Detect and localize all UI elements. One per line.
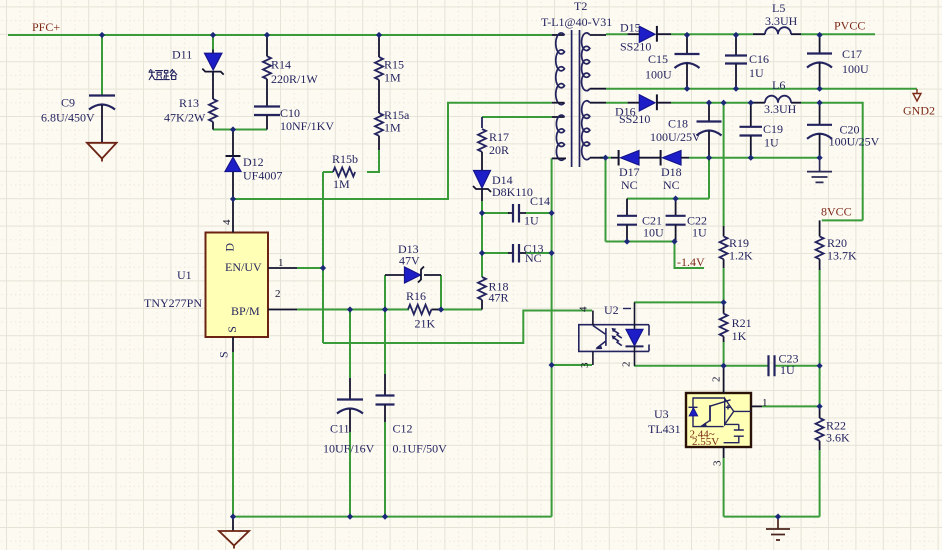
capacitor C22: [666, 199, 686, 242]
earth ground bottom right: [766, 517, 790, 540]
wire C14 row: [482, 201, 552, 253]
diode D18: [661, 150, 689, 166]
junction node (778,516): [775, 514, 781, 520]
wire R17 top link: [482, 116, 552, 118]
resistor R21: [720, 302, 728, 342]
wire GND2 mid rail: [606, 88, 917, 90]
diode D13: [385, 267, 441, 284]
svg-text:S: S: [225, 326, 239, 333]
resistor R13: [209, 75, 217, 130]
resistor R14: [263, 35, 271, 107]
resistor R16: [408, 305, 441, 315]
U2 pin 3 lead: [592, 351, 594, 365]
capacitor C11: [337, 378, 363, 432]
wire C12 top: [384, 310, 386, 375]
U3 output and compensation cap: [724, 411, 751, 442]
wire R17 feed stub: [481, 117, 483, 128]
svg-text:1M: 1M: [384, 121, 401, 135]
svg-text:EN/UV: EN/UV: [225, 260, 262, 274]
svg-text:D17: D17: [619, 165, 640, 179]
svg-text:C12: C12: [393, 422, 413, 436]
svg-text:1: 1: [278, 257, 284, 269]
junction node (482,213): [479, 210, 485, 216]
wire D15 anode: [606, 33, 628, 35]
junction node (605.5,157): [602, 155, 608, 161]
resistor R20: [816, 220, 824, 270]
junction node (350,516): [347, 514, 353, 520]
svg-text:13.7K: 13.7K: [827, 249, 857, 263]
svg-text:SS210: SS210: [619, 112, 650, 126]
svg-text:1U: 1U: [692, 226, 707, 240]
resistor R15a: [375, 113, 383, 150]
junction node (723.6,302): [721, 299, 727, 305]
svg-text:47K/2W: 47K/2W: [164, 111, 206, 125]
wire D12 bottom to transformer: [233, 103, 552, 199]
svg-text:20R: 20R: [489, 143, 509, 157]
svg-text:4: 4: [221, 219, 233, 225]
svg-text:R15b: R15b: [332, 152, 358, 166]
svg-text:C19: C19: [763, 122, 783, 136]
wire U3 pin3 down: [723, 458, 725, 517]
U2 LED: [634, 302, 636, 329]
svg-text:D12: D12: [243, 155, 264, 169]
svg-text:TNY277PN: TNY277PN: [144, 296, 202, 310]
wire R15a to R15b corner: [367, 150, 379, 172]
wire R20 bottom to C23 node: [819, 270, 821, 406]
junction node (675.6,198): [673, 196, 679, 202]
diode D12: [225, 130, 241, 200]
wire BP/M row: [297, 309, 409, 311]
svg-text:PFC+: PFC+: [32, 20, 60, 34]
wire R19 bottom: [723, 268, 725, 302]
svg-text:2: 2: [621, 362, 633, 368]
svg-text:SS210: SS210: [620, 40, 651, 54]
svg-text:3.3UH: 3.3UH: [764, 102, 797, 116]
U1 pin S: [232, 337, 234, 352]
svg-text:D15: D15: [620, 21, 641, 35]
svg-text:U1: U1: [177, 268, 192, 282]
transformer secondary bottom winding: [582, 101, 606, 160]
junction node (750.8,157): [748, 155, 754, 161]
junction node (687,35): [684, 32, 690, 38]
svg-text:2: 2: [711, 377, 723, 383]
U3 internal zener diode: [689, 406, 698, 408]
wire U1 source down: [232, 352, 234, 517]
junction node (551.6,253): [549, 250, 555, 256]
wire C13 row: [482, 253, 552, 277]
junction node (213,35): [210, 32, 216, 38]
resistor R22: [816, 406, 824, 450]
wire secondary rail2 left: [600, 157, 612, 159]
resistor R15b: [333, 168, 355, 177]
svg-text:R21: R21: [732, 316, 752, 330]
U3 pin3 lead: [723, 447, 725, 458]
transformer primary top winding: [552, 33, 565, 105]
junction node (687,88): [684, 86, 690, 92]
wire opto pin3: [552, 364, 592, 366]
junction node (709,102): [706, 100, 712, 106]
U2 phototransistor: [593, 326, 606, 349]
junction node (736,88): [733, 86, 739, 92]
capacitor C15: [675, 35, 700, 89]
svg-text:R13: R13: [179, 96, 199, 110]
wire primary ground rail: [233, 516, 552, 518]
diode D17: [611, 150, 661, 166]
capacitor C19: [740, 103, 763, 158]
svg-text:1U: 1U: [749, 66, 764, 80]
junction node (385,309): [382, 306, 388, 312]
svg-text:6.8U/450V: 6.8U/450V: [41, 111, 95, 125]
wire bias return vertical: [551, 158, 553, 516]
svg-text:R15: R15: [384, 58, 404, 72]
svg-text:2: 2: [275, 288, 281, 300]
svg-text:U2: U2: [604, 303, 619, 317]
wire C11 top: [349, 310, 351, 379]
inductor L5: [753, 27, 801, 34]
svg-text:3: 3: [712, 460, 724, 466]
junction node (102,35): [99, 32, 105, 38]
junction node (441,309): [438, 306, 444, 312]
U3 pin2 lead: [723, 366, 725, 393]
junction node (736,35): [733, 32, 739, 38]
U3 pin1 lead: [751, 405, 762, 407]
capacitor C17: [807, 35, 832, 89]
svg-text:D8K110: D8K110: [492, 185, 533, 199]
diode D14: [473, 171, 491, 202]
resistor R19: [720, 226, 728, 268]
earth ground under C20: [807, 158, 832, 183]
svg-text:BP/M: BP/M: [231, 304, 260, 318]
svg-text:10U: 10U: [643, 226, 664, 240]
wire 8VCC loop: [801, 103, 863, 221]
junction node (350,309): [347, 306, 353, 312]
svg-text:PVCC: PVCC: [834, 19, 865, 33]
transformer bias winding: [552, 115, 566, 160]
wire secondary ground bottom: [724, 516, 820, 518]
junction node (551.6,365): [549, 362, 555, 368]
junction node (723.6,102): [721, 100, 727, 106]
svg-text:T2: T2: [574, 0, 587, 13]
U3 comparator triangle: [725, 399, 734, 425]
svg-text:10UF/16V: 10UF/16V: [323, 442, 375, 456]
wire EN/UV to opto collector: [323, 311, 592, 344]
Chinese note 短路 drawn as strokes: [149, 69, 177, 79]
svg-text:1M: 1M: [333, 177, 350, 191]
U2 light arrows: [614, 330, 622, 338]
wire R13-C10 bottom link: [213, 129, 267, 131]
svg-text:47V: 47V: [399, 254, 420, 268]
svg-text:D: D: [223, 243, 237, 252]
svg-text:C16: C16: [749, 52, 769, 66]
U1 pin 4: [232, 199, 234, 233]
svg-text:4: 4: [578, 306, 590, 312]
capacitor C16: [725, 35, 747, 89]
power port GND2 arrow: [913, 89, 921, 101]
svg-text:NC: NC: [663, 178, 680, 192]
diode D11: [202, 50, 223, 76]
svg-text:1U: 1U: [524, 214, 539, 228]
svg-text:1: 1: [762, 397, 768, 409]
junction node (750.8,102): [748, 100, 754, 106]
capacitor C9: [89, 96, 115, 144]
junction node (819.6,102): [817, 100, 823, 106]
IC U1 box: [206, 233, 269, 338]
svg-text:8VCC: 8VCC: [821, 205, 852, 219]
junction node (819.6,35): [817, 32, 823, 38]
svg-text:D11: D11: [172, 48, 192, 62]
U2 pin 4 lead: [592, 311, 594, 326]
resistor R17: [478, 129, 486, 170]
wire R21 bottom: [723, 342, 725, 366]
wire secondary rail2 right: [689, 157, 820, 159]
svg-text:2.55V: 2.55V: [692, 436, 719, 448]
capacitor C20: [807, 103, 832, 158]
wire C21C22 bottom rail: [606, 158, 675, 242]
wire PFC+ top rail: [8, 34, 552, 36]
wire C18 bottom to C21/C22 top: [627, 158, 709, 199]
capacitor C23: [769, 355, 775, 376]
wire U3 pin1 to R22: [762, 405, 820, 407]
wire R16 right to R18: [437, 309, 482, 311]
wire opto pin2 to C23: [634, 365, 769, 367]
svg-text:-1.4V: -1.4V: [677, 255, 705, 269]
diode D16: [628, 94, 671, 111]
svg-text:1K: 1K: [732, 329, 747, 343]
junction node (819.6,366): [817, 363, 823, 369]
svg-text:C10: C10: [280, 106, 300, 120]
svg-text:L5: L5: [772, 1, 785, 15]
capacitor C14: [508, 204, 526, 223]
svg-text:47R: 47R: [489, 291, 509, 305]
junction node (233,129): [230, 126, 236, 132]
svg-text:C11: C11: [330, 422, 350, 436]
svg-text:1U: 1U: [780, 363, 795, 377]
junction node (233,199): [230, 196, 236, 202]
svg-text:NC: NC: [621, 178, 638, 192]
wire C9 top: [101, 35, 103, 96]
svg-text:GND2: GND2: [903, 104, 935, 118]
U3 internal frame: [693, 398, 725, 427]
svg-text:U3: U3: [654, 407, 669, 421]
svg-text:1M: 1M: [384, 71, 401, 85]
svg-text:S: S: [217, 351, 231, 358]
wire D13 right vert: [440, 275, 442, 310]
capacitor C12: [376, 374, 395, 422]
U1 pin 2: [268, 309, 297, 311]
wire rail1 after D16: [671, 102, 753, 104]
junction node (709,157): [706, 155, 712, 161]
transformer secondary top winding: [582, 33, 606, 91]
capacitor C13: [508, 244, 526, 263]
svg-text:C18: C18: [668, 117, 688, 131]
svg-text:NC: NC: [525, 251, 542, 265]
wire C23 right: [775, 365, 820, 367]
wire C12 bottom: [384, 422, 386, 517]
svg-text:R16: R16: [406, 289, 426, 303]
resistor R18: [478, 277, 486, 310]
wire D16 anode: [606, 102, 628, 104]
IC U3 box: [686, 366, 762, 458]
svg-text:1.2K: 1.2K: [729, 249, 753, 263]
svg-text:L6: L6: [772, 78, 785, 92]
svg-text:R14: R14: [271, 58, 291, 72]
svg-text:C15: C15: [648, 52, 668, 66]
junction node (385,516): [382, 514, 388, 520]
svg-text:TL431: TL431: [648, 422, 681, 436]
junction node (819.6,157): [817, 155, 823, 161]
capacitor C18: [697, 103, 722, 158]
svg-text:21K: 21K: [415, 317, 436, 331]
svg-text:10NF/1KV: 10NF/1KV: [280, 119, 334, 133]
svg-text:100U/25V: 100U/25V: [650, 130, 701, 144]
wire R15b left lead: [323, 171, 333, 173]
svg-text:R17: R17: [489, 130, 509, 144]
junction node (323,268): [320, 265, 326, 271]
junction node (819.6,88): [817, 86, 823, 92]
junction node (819.6,406): [817, 403, 823, 409]
svg-text:100U/25V: 100U/25V: [829, 135, 880, 149]
junction node (551.6,213): [549, 210, 555, 216]
transformer T2 core: [572, 30, 580, 167]
junction node (674.5,241): [671, 238, 677, 244]
optocoupler U2: [579, 302, 649, 365]
wire R19 feed: [723, 103, 725, 226]
svg-text:0.1UF/50V: 0.1UF/50V: [393, 442, 448, 456]
junction node (482,253): [479, 250, 485, 256]
wire opto LED anode row: [634, 301, 724, 303]
junction node (267,35): [264, 32, 270, 38]
wire EN/UV pin: [297, 267, 323, 269]
svg-text:100U: 100U: [842, 62, 869, 76]
wire -1.4V stub: [675, 242, 705, 269]
wire C11 bottom: [349, 432, 351, 517]
svg-text:3.3UH: 3.3UH: [765, 14, 798, 28]
junction node (627,241): [624, 238, 630, 244]
svg-text:D18: D18: [661, 165, 682, 179]
wire PVCC rail: [671, 33, 875, 35]
wire D13 left vert: [384, 275, 386, 310]
svg-text:UF4007: UF4007: [243, 169, 282, 183]
ground triangle C9: [87, 143, 117, 162]
svg-text:C9: C9: [61, 96, 75, 110]
svg-text:3: 3: [579, 362, 591, 368]
wire R15b left vertical: [322, 172, 324, 343]
inductor L6: [753, 96, 801, 103]
wire R22 bottom: [819, 450, 821, 517]
svg-text:3.6K: 3.6K: [826, 431, 850, 445]
diode D15: [628, 26, 671, 43]
svg-text:C17: C17: [842, 47, 862, 61]
junction node (723.6,366): [721, 363, 727, 369]
svg-text:100U: 100U: [645, 68, 672, 82]
capacitor C10: [254, 107, 280, 130]
ground triangle U1 source: [219, 517, 249, 549]
junction node (379,35): [376, 32, 382, 38]
U1 pin 1: [268, 267, 297, 269]
svg-text:220R/1W: 220R/1W: [271, 72, 318, 86]
svg-text:1U: 1U: [764, 136, 779, 150]
svg-text:T-L1@40-V31: T-L1@40-V31: [541, 15, 612, 29]
capacitor C21: [617, 199, 637, 242]
svg-text:C14: C14: [530, 194, 550, 208]
resistor R15: [375, 35, 383, 113]
wire D11 top: [212, 35, 214, 50]
junction node (233,516): [230, 514, 236, 520]
U3 internal transistor: [709, 405, 711, 421]
